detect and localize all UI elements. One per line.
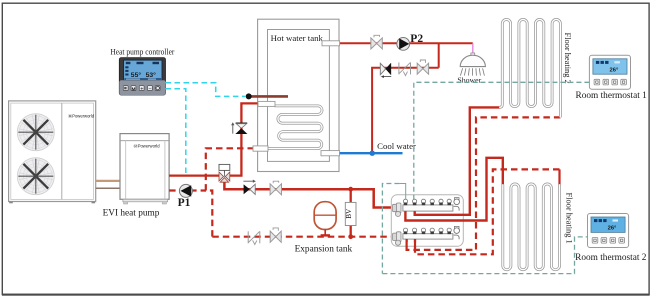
svg-text:Hot water tank: Hot water tank	[271, 33, 324, 43]
svg-text:Heat pump controller: Heat pump controller	[110, 46, 174, 56]
refrigerant pipe lower	[96, 187, 121, 189]
tank sensor probe	[249, 95, 288, 98]
tank port cold in	[321, 151, 340, 156]
wire: main return line to manifold (dashed)	[212, 236, 394, 238]
check valve on mixing row	[380, 63, 385, 74]
supply manifold end vent	[454, 199, 460, 205]
return manifold ports	[403, 228, 407, 232]
hot water tank	[258, 19, 339, 171]
valve V2 on mixing row	[417, 63, 428, 74]
svg-text:53°: 53°	[146, 71, 157, 79]
return manifold inlet fitting	[393, 233, 398, 240]
wire: BV branch	[350, 189, 352, 237]
node: return junction	[348, 234, 353, 239]
svg-text:26°: 26°	[608, 226, 617, 232]
wire: drop to mixing row	[438, 43, 440, 67]
room thermostat 2	[588, 214, 629, 248]
wire: manifold zone box bottom	[382, 237, 587, 274]
wire: actuator wire port 1	[399, 184, 405, 200]
return manifold end vent	[454, 228, 460, 234]
floor heating 2 coil	[499, 19, 560, 117]
indoor unit EVI heat pump	[120, 134, 169, 200]
sensor node	[246, 93, 252, 99]
wire: return manifold stub 1	[406, 239, 408, 247]
border frame	[2, 294, 650, 296]
wire: floor heating 2 supply	[415, 107, 501, 214]
valve V1 on hot water line	[371, 38, 382, 49]
pump P2	[397, 38, 410, 51]
svg-text:Room thermostat 1: Room thermostat 1	[576, 91, 648, 101]
wire: floor heating 1 return stub	[558, 169, 560, 184]
wire: floor heating 2 return (dashed)	[407, 117, 561, 250]
outdoor unit fan 1	[17, 114, 54, 151]
shower spray	[460, 68, 462, 75]
controller wire to tank sensor	[166, 83, 246, 97]
svg-text:Floor heating 1: Floor heating 1	[565, 193, 574, 244]
wire: cold feed mixing row	[372, 68, 439, 152]
tank port hot out	[322, 41, 340, 46]
shower feed pipe	[472, 43, 474, 53]
valve on return line	[270, 231, 281, 242]
wire: hot water line from tank top	[340, 42, 473, 44]
wire: return through pump P1 (dashed)	[169, 189, 206, 191]
check valve on tank inlet riser	[236, 122, 248, 124]
wire: thermostat 1 bus	[414, 82, 590, 199]
outdoor unit of EVI heat pump	[9, 101, 96, 202]
svg-text:BV: BV	[345, 208, 353, 219]
svg-text:ⓂPowerworld: ⓂPowerworld	[134, 143, 161, 150]
wire: return manifold stub 2	[414, 239, 416, 247]
svg-text:Cool water: Cool water	[377, 141, 416, 151]
shower head	[471, 53, 475, 55]
svg-text:26°: 26°	[610, 68, 619, 74]
svg-text:−: −	[148, 86, 151, 92]
svg-text:Room thermostat 2: Room thermostat 2	[575, 253, 647, 263]
heat pump controller	[119, 58, 165, 95]
svg-text:P1: P1	[178, 197, 191, 209]
pump P1	[179, 184, 192, 197]
three-way valve	[219, 172, 224, 181]
svg-text:Expansion tank: Expansion tank	[295, 245, 353, 255]
svg-text:Floor heating 2: Floor heating 2	[563, 33, 572, 84]
supply manifold ports	[403, 199, 407, 203]
node: cool water junction	[370, 151, 375, 156]
manifold cabinet	[391, 195, 463, 247]
svg-text:+: +	[140, 87, 143, 93]
three-way valve actuator	[219, 164, 230, 170]
wire: 3-way valve bottom to manifold supply	[224, 179, 394, 208]
svg-text:55°: 55°	[131, 71, 142, 79]
check valve after 3-way valve	[244, 184, 250, 194]
svg-text:ⓂPowerworld: ⓂPowerworld	[68, 113, 95, 120]
regulating valve on mixing row	[398, 62, 400, 74]
tank port coil inlet	[258, 101, 275, 106]
svg-text:M: M	[132, 86, 136, 91]
wire: tank coil return (dashed)	[206, 148, 254, 236]
node: supply junction	[348, 187, 353, 192]
svg-text:EVI heat pump: EVI heat pump	[103, 208, 160, 218]
svg-text:Shower: Shower	[457, 76, 481, 85]
refrigerant pipe upper	[96, 180, 121, 182]
svg-text:P2: P2	[410, 33, 423, 45]
tank heat exchanger coil	[268, 106, 322, 149]
wire: heating supply from indoor unit to 3-way valve	[169, 174, 219, 176]
floor heating 1 coil	[503, 184, 560, 270]
valve after check valve	[270, 184, 281, 195]
wire: floor heating 1 supply	[405, 158, 502, 221]
balancing vessel BV	[345, 202, 356, 225]
cool water pipe	[340, 152, 403, 154]
wire: manifold zone box left/top	[382, 184, 399, 274]
room thermostat 1	[589, 55, 630, 89]
wire: 3-way valve to tank coil inlet	[230, 103, 259, 175]
controller wire to pump P1	[166, 89, 186, 175]
supply manifold inlet fitting	[393, 204, 398, 211]
drain valve on return (dashed line)	[247, 231, 249, 243]
supply manifold bar	[403, 205, 453, 211]
tank port coil return	[253, 146, 268, 151]
expansion tank	[314, 202, 336, 230]
return manifold bar	[403, 234, 453, 239]
wire: floor heating 1 return (dashed)	[415, 169, 560, 254]
outdoor unit fan 2	[17, 158, 54, 195]
